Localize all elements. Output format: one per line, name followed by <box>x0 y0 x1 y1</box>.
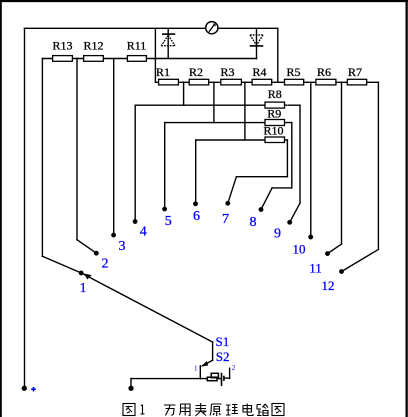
resistor R7 <box>347 79 366 85</box>
svg-text:11: 11 <box>309 261 322 276</box>
svg-text:R6: R6 <box>317 65 331 79</box>
svg-text:R11: R11 <box>127 39 147 53</box>
wire: R8 right segment after gap <box>289 104 300 106</box>
node + terminal dot <box>22 386 27 391</box>
glyph 图 <box>123 404 135 416</box>
resistor R11 <box>127 56 146 62</box>
svg-text:9: 9 <box>274 227 281 242</box>
wire: vertical x=310.8 R5/R6 junction down to contact 10 <box>310 82 312 237</box>
glyph 原 <box>210 404 222 416</box>
wire: left frame vertical to + terminal <box>24 28 26 388</box>
glyph 用 <box>180 404 191 416</box>
resistor R4 <box>252 79 272 85</box>
wire: vertical x=244.9 R3/R4 junction to R10 bus <box>244 82 246 140</box>
svg-text:S1: S1 <box>216 334 230 349</box>
wire: R8 left horizontal y=105.2 <box>135 104 287 106</box>
node contact 9 <box>287 220 292 225</box>
diode D1 (left, pointing up) <box>161 34 175 46</box>
screen border: right black line <box>406 0 408 417</box>
glyph 表 <box>195 403 207 416</box>
resistor R12 <box>84 56 104 62</box>
svg-text:S2: S2 <box>216 349 230 364</box>
glyph 理 <box>226 405 238 416</box>
node contact 3 <box>111 233 116 238</box>
resistor R10 <box>265 137 285 143</box>
resistor R5 <box>285 79 304 85</box>
node contact 2 <box>94 251 99 256</box>
svg-text:R2: R2 <box>189 65 203 79</box>
wire: bottom battery wire y=378.6 left part <box>131 378 207 380</box>
svg-text:R12: R12 <box>83 39 103 53</box>
svg-text:4: 4 <box>140 224 147 239</box>
wire: vertical x=213.9 R2/R3 junction to R9 bus <box>213 82 215 122</box>
svg-text:10: 10 <box>293 242 306 257</box>
svg-text:R4: R4 <box>252 65 266 79</box>
wire: horizontal y=176.7 to contact 7 bend <box>236 176 287 178</box>
wire: vertical x=256.5 through diode D2 <box>256 28 258 58</box>
wire: diagonal to contact 11 <box>328 244 342 254</box>
label + terminal <box>31 387 36 392</box>
svg-text:R1: R1 <box>156 65 170 79</box>
wire: vertical x=341.5 R6/R7 junction down <box>341 82 343 244</box>
wire: horizontal bus y=58.5 R13 row <box>42 58 256 60</box>
wire: vertical x=77 R13/R12 junction down <box>76 59 78 240</box>
wire: diagonal to contact 2 <box>77 240 96 254</box>
wire: vertical x=195.7 down to contact 6 <box>195 140 197 204</box>
resistor R2 <box>189 79 209 85</box>
wire: horizontal y=187.9 to contact 8 bend <box>272 187 292 189</box>
resistor R9 <box>265 120 285 126</box>
svg-text:8: 8 <box>250 215 257 230</box>
svg-text:R7: R7 <box>348 65 362 79</box>
resistor R13 <box>53 56 73 62</box>
node contact 12 <box>339 269 344 274</box>
svg-text:6: 6 <box>193 209 200 224</box>
wire: R10 right drop x=287.4 <box>286 140 288 177</box>
arrowhead on wiper at contact 1 <box>85 274 92 280</box>
resistor R6 <box>316 79 336 85</box>
wire: S2 moving arm <box>203 360 213 366</box>
wire: diagonal to contact 12 <box>342 249 379 271</box>
svg-text:7: 7 <box>222 212 229 227</box>
battery cell (long and short plates) <box>222 373 224 386</box>
wire: S2 contact 1 drop x=200.3 <box>199 366 201 379</box>
wire: diagonal to contact 9 <box>290 203 300 222</box>
wire: vertical x=164.7 down to contact 5 <box>164 123 166 209</box>
wire: vertical x=155.4 top bus to R1 row <box>154 28 156 82</box>
glyph 万 <box>164 405 176 416</box>
wire: vertical x=378.4 after R7 down <box>377 82 379 249</box>
wire: vertical x=277.8 top bus to R4/R5 junction <box>277 28 279 82</box>
node contact 7 <box>226 201 231 206</box>
glyph 1 (figure number) <box>141 405 145 415</box>
wire: top horizontal bus y=28.3 left of meter <box>25 27 206 29</box>
wire: R8 right drop x=300 <box>299 105 301 203</box>
wire: bottom battery wire battery to corner <box>225 377 230 379</box>
svg-text:R13: R13 <box>52 39 72 53</box>
node contact 5 <box>162 207 167 212</box>
svg-text:R8: R8 <box>268 87 282 101</box>
wire: bottom battery wire resistor to battery <box>219 378 222 380</box>
svg-text:2: 2 <box>232 364 236 372</box>
glyph 路 <box>257 404 268 416</box>
glyph 电 <box>243 404 253 416</box>
svg-text:R5: R5 <box>286 65 300 79</box>
caption: 图 1 万用表原理电路图 <box>123 403 284 416</box>
svg-text:3: 3 <box>119 239 126 254</box>
wire: vertical x=42.4 down from R13 left <box>41 59 43 257</box>
wire: vertical x=212.6 wiper to S2 pivot <box>212 342 214 360</box>
svg-text:1: 1 <box>194 364 198 372</box>
resistor R1 <box>159 79 179 85</box>
node battery negative terminal dot <box>129 386 134 391</box>
svg-text:2: 2 <box>102 257 109 272</box>
wire: wiper arm long diagonal from contact 1 to S1 <box>81 273 212 342</box>
glyph 图 (second) <box>272 404 284 416</box>
resistor R8 <box>265 102 285 108</box>
wire: negative terminal drop x=131 <box>130 379 132 388</box>
wire: S2 contact 2 drop x=229.6 <box>229 368 231 378</box>
wire: vertical x=113.7 R12/R11 junction down to contact 3 <box>113 59 115 236</box>
svg-text:R3: R3 <box>220 65 234 79</box>
node contact 4 <box>133 219 138 224</box>
wire: R10 left horizontal y=140 <box>196 139 288 141</box>
diode D2 (right, pointing down) <box>250 35 264 46</box>
svg-text:R10: R10 <box>263 124 283 138</box>
node contact 6 <box>193 202 198 207</box>
wire: diagonal to contact 1 <box>42 256 81 273</box>
svg-text:5: 5 <box>165 214 172 229</box>
wire: vertical x=183.6 R1/R2 junction to R8 bus <box>183 82 185 105</box>
svg-text:12: 12 <box>322 278 335 293</box>
wire: top horizontal bus y=28.3 right of meter <box>218 27 278 29</box>
wire: horizontal R1 row y=82.3 <box>155 81 378 83</box>
node contact 11 <box>325 251 330 256</box>
wire: vertical x=135.2 down to contact 4 <box>134 105 136 221</box>
galvanometer meter symbol <box>206 22 218 34</box>
battery internal resistor (overlapping rectangles) <box>207 373 218 380</box>
wire: R9 left horizontal y=122.6 <box>165 122 292 124</box>
node contact 8 <box>259 207 264 212</box>
screen border: left black line <box>0 0 2 417</box>
resistor R3 <box>221 79 242 85</box>
node contact 1 <box>79 271 84 276</box>
wire: vertical x=168.2 through diode D1 <box>167 28 169 58</box>
screen border: top black bar <box>0 0 408 2</box>
wire: diagonal to contact 8 <box>261 188 272 210</box>
arrowhead on S2 arm <box>201 361 208 366</box>
node contact 10 <box>308 235 313 240</box>
svg-text:R9: R9 <box>267 107 281 121</box>
wire: R9 right drop x=291.8 <box>291 123 293 188</box>
wire: diagonal to contact 7 <box>228 177 237 204</box>
svg-text:1: 1 <box>80 281 87 296</box>
